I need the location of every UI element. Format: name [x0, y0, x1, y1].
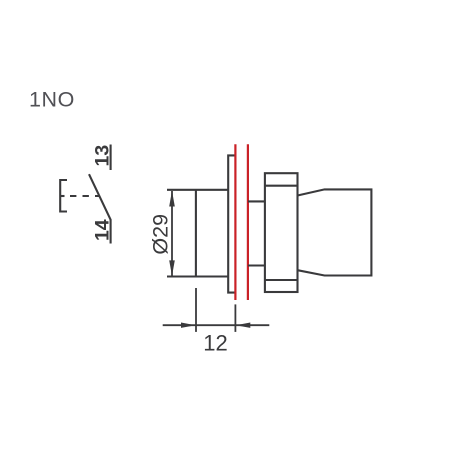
- mechanical link dashed line: [70, 195, 100, 197]
- svg-text:1NO: 1NO: [29, 88, 75, 112]
- dimension arrow right-pointing: [181, 323, 196, 328]
- rear housing: [298, 189, 372, 275]
- panel surface line 2 (red): [247, 144, 249, 300]
- label 13: [92, 145, 114, 167]
- dimension line diameter 29: [171, 191, 173, 276]
- terminal 14 wire: [110, 219, 112, 243]
- body tube lower line: [248, 264, 265, 266]
- dimension arrow down: [169, 260, 175, 276]
- terminal 13 wire: [110, 145, 112, 171]
- extension line right (12 dim): [234, 304, 236, 332]
- svg-text:13: 13: [92, 145, 114, 167]
- hex nut outline: [265, 173, 298, 292]
- body tube upper line: [248, 200, 265, 202]
- dimension arrow left-pointing: [236, 323, 251, 328]
- svg-text:14: 14: [92, 219, 114, 241]
- svg-text:12: 12: [203, 331, 227, 356]
- svg-text:Ø29: Ø29: [149, 214, 173, 255]
- label 14: [92, 219, 114, 241]
- dimension text diameter 29: [149, 214, 173, 255]
- moving contact arm (NO): [89, 174, 111, 220]
- dimension arrow up: [169, 191, 175, 207]
- label 1NO: [29, 88, 75, 112]
- extension line left (12 dim): [195, 288, 197, 332]
- mounting flange: [228, 155, 236, 292]
- button cap (front bezel): [167, 190, 228, 277]
- panel surface line 1 (red): [234, 144, 236, 300]
- dimension line 12: [163, 324, 270, 326]
- actuator bracket: [60, 180, 67, 212]
- dimension text 12: [203, 331, 227, 356]
- nut chamfer lines: [265, 186, 298, 280]
